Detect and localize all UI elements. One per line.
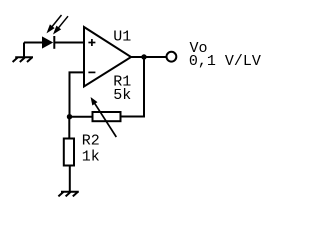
op-amp U1 (84, 27, 131, 87)
node A (output junction dot) (141, 54, 146, 59)
output terminal circle Vo (167, 52, 177, 62)
wire: GND1 stub to photodiode anode (24, 42, 43, 44)
wire: op-amp output to node A (131, 56, 144, 58)
wire: R1 left terminal to node B (70, 116, 93, 118)
svg-text:R2: R2 (82, 133, 100, 150)
svg-text:0,1 V/LV: 0,1 V/LV (189, 53, 261, 70)
light arrows into photodiode D1 (48, 15, 68, 33)
svg-text:1k: 1k (82, 149, 100, 166)
potentiometer R1 (91, 98, 120, 137)
node B (feedback junction dot) (67, 114, 72, 119)
wire: node A down and left to R1 right terminal (121, 57, 145, 117)
photodiode D1 (42, 36, 54, 49)
wire: photodiode cathode to op-amp + input (54, 42, 84, 44)
resistor R2 (64, 139, 74, 166)
svg-text:U1: U1 (113, 28, 131, 45)
ground GND2 (bottom) (58, 192, 78, 197)
wire: R2 to GND2 (69, 166, 71, 192)
svg-text:5k: 5k (113, 87, 131, 104)
wire: node A to output terminal (144, 56, 167, 58)
wire: node B down to R2 (68, 117, 70, 139)
ground GND1 (left) (13, 43, 33, 63)
wire: op-amp - input left and down to node B (70, 72, 85, 116)
